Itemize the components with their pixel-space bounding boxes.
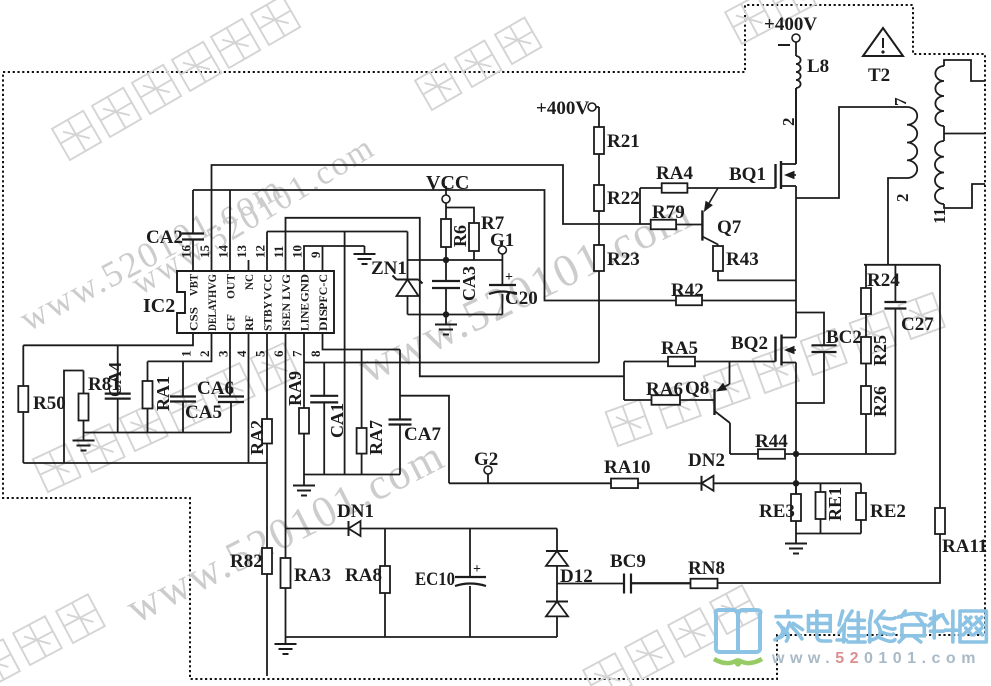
- resistor R22: [594, 185, 604, 211]
- resistor R79: [651, 220, 676, 230]
- svg-text:10: 10: [290, 245, 305, 258]
- wire DN1 bus: [286, 528, 349, 530]
- wire RA4-R79 link: [639, 188, 641, 225]
- svg-text:13: 13: [234, 245, 249, 259]
- resistor RA5: [624, 361, 668, 363]
- svg-text:Q7: Q7: [717, 217, 742, 238]
- wire R81 link: [64, 371, 84, 464]
- svg-text:R23: R23: [607, 249, 640, 270]
- svg-text:EC10: EC10: [415, 569, 455, 590]
- pin 2 bus: [148, 333, 212, 361]
- resistor R24: [865, 265, 867, 288]
- pin 9 stub: [322, 246, 324, 271]
- ground below RE3: [795, 534, 797, 544]
- wire bottom-left bus: [23, 462, 267, 464]
- wire RA2 down: [266, 463, 268, 548]
- capacitor C20 electrolytic: [501, 260, 503, 285]
- svg-text:9: 9: [308, 251, 323, 258]
- svg-text:+400V: +400V: [764, 14, 817, 35]
- svg-text:BC2: BC2: [826, 327, 862, 348]
- svg-text:RA5: RA5: [661, 338, 698, 359]
- svg-text:Q8: Q8: [685, 378, 709, 399]
- wire gate-drive vertical: [623, 362, 625, 401]
- resistor R25: [861, 337, 871, 364]
- pin 12 wire: [266, 232, 268, 272]
- resistor RA7: [361, 350, 363, 429]
- svg-text:CA4: CA4: [105, 362, 125, 397]
- svg-text:R44: R44: [755, 431, 788, 452]
- svg-text:RA3: RA3: [294, 565, 331, 586]
- svg-text:RA10: RA10: [604, 457, 650, 478]
- inductor L8: [796, 56, 801, 88]
- resistor RE2: [860, 483, 862, 493]
- resistor R81: [83, 371, 85, 394]
- svg-text:CA2: CA2: [146, 227, 183, 248]
- IC U-IC2 body: [177, 271, 334, 333]
- pin 14 wire: [229, 190, 231, 271]
- svg-text:ISEN: ISEN: [281, 302, 293, 331]
- resistor RA4: [640, 187, 662, 189]
- wire caps ground bus: [84, 432, 232, 434]
- svg-text:GND: GND: [300, 274, 312, 302]
- svg-text:RE2: RE2: [870, 501, 906, 522]
- svg-text:BQ1: BQ1: [729, 164, 766, 185]
- resistor R6: [441, 219, 451, 247]
- capacitor EC10 electrolytic: [469, 529, 471, 578]
- pin 10 wire to ground: [304, 246, 365, 271]
- svg-text:12: 12: [253, 245, 268, 258]
- svg-text:3: 3: [216, 350, 231, 357]
- resistor R23: [594, 245, 604, 271]
- wire BQ2 source down: [795, 363, 797, 495]
- pin 1 bus: [23, 333, 193, 345]
- svg-text:CF: CF: [226, 314, 238, 331]
- svg-text:R79: R79: [652, 202, 685, 223]
- svg-text:CA5: CA5: [185, 402, 222, 423]
- svg-text:DIS: DIS: [318, 309, 330, 331]
- svg-text:6: 6: [271, 350, 286, 357]
- svg-text:R82: R82: [230, 551, 263, 572]
- svg-text:PFC-C: PFC-C: [318, 274, 330, 310]
- svg-text:RA9: RA9: [285, 371, 305, 406]
- svg-text:G1: G1: [490, 230, 514, 251]
- capacitor C27: [894, 265, 896, 302]
- svg-text:R26: R26: [870, 386, 890, 417]
- ground near ZN1: [364, 246, 366, 254]
- wire R24 top bus: [864, 264, 940, 266]
- wire RE bottom bus: [796, 533, 861, 535]
- ground bottom bus: [285, 637, 287, 644]
- svg-text:CSS: CSS: [189, 307, 201, 331]
- svg-text:CA7: CA7: [404, 424, 441, 445]
- svg-text:C20: C20: [505, 288, 538, 309]
- wire sense ground bus: [304, 474, 400, 476]
- pin 4 wire: [248, 333, 250, 463]
- svg-text:15: 15: [197, 245, 212, 259]
- svg-text:14: 14: [216, 245, 231, 259]
- pin 6 wire: [285, 333, 287, 558]
- svg-text:ZN1: ZN1: [371, 258, 407, 279]
- resistor R42: [676, 296, 702, 306]
- svg-text:RA11: RA11: [942, 536, 987, 557]
- resistor RA3: [281, 558, 291, 588]
- diode D12 upper: [556, 529, 558, 552]
- svg-text:+400V: +400V: [536, 98, 589, 119]
- svg-text:R25: R25: [870, 335, 890, 366]
- svg-text:+: +: [505, 270, 513, 285]
- svg-text:LINE: LINE: [300, 303, 312, 331]
- logo book icon: [716, 610, 761, 652]
- wire to primary top: [796, 107, 901, 198]
- svg-text:RA6: RA6: [646, 379, 683, 400]
- pin 15 wire to R22/R23 junction: [212, 165, 651, 271]
- capacitor CA7: [399, 350, 401, 420]
- svg-text:R42: R42: [671, 280, 704, 301]
- resistor RE3: [795, 483, 797, 494]
- pin 3 wire with CA6: [229, 333, 231, 397]
- svg-text:RE3: RE3: [759, 501, 795, 522]
- resistor R43: [717, 245, 719, 247]
- svg-text:5: 5: [253, 350, 268, 357]
- pin 7 bus LINE: [304, 362, 599, 364]
- svg-text:BC9: BC9: [610, 551, 646, 572]
- svg-text:VCC: VCC: [263, 274, 275, 300]
- resistor RA1: [147, 361, 149, 381]
- svg-text:RF: RF: [244, 315, 256, 331]
- svg-text:RA2: RA2: [247, 420, 267, 455]
- logo site name text: [775, 611, 803, 641]
- node G1: [498, 246, 506, 254]
- svg-text:+: +: [473, 562, 481, 577]
- svg-text:BQ2: BQ2: [731, 333, 768, 354]
- R6 lower wire: [445, 247, 447, 260]
- svg-text:NC: NC: [244, 274, 256, 290]
- svg-text:VBT: VBT: [189, 274, 201, 296]
- capacitor CA3: [445, 260, 447, 281]
- svg-text:2: 2: [893, 194, 912, 203]
- resistor RA8: [384, 529, 386, 567]
- transistor Q7: [701, 210, 703, 240]
- wire VCC to R7: [446, 208, 474, 224]
- svg-text:DN1: DN1: [337, 501, 374, 522]
- resistor R26: [861, 386, 871, 414]
- svg-text:R43: R43: [726, 249, 759, 270]
- wire BQ1 source down: [795, 186, 797, 338]
- svg-text:L8: L8: [807, 56, 829, 77]
- wire bottom bus: [286, 636, 558, 638]
- svg-text:OUT: OUT: [226, 274, 238, 299]
- secondary winding 11: [944, 60, 985, 81]
- diode DN1: [348, 521, 350, 536]
- svg-text:T2: T2: [868, 65, 890, 86]
- capacitor CA1: [323, 363, 325, 396]
- svg-text:www.520101.com: www.520101.com: [771, 650, 981, 667]
- capacitor BC2: [796, 313, 824, 346]
- svg-text:CA6: CA6: [197, 378, 234, 399]
- pin 11 wire to gate-drive: [286, 218, 625, 376]
- pin 8 bus: [323, 333, 401, 350]
- ground below R81: [83, 433, 85, 441]
- capacitor BC9: [623, 574, 625, 594]
- svg-text:DN2: DN2: [688, 450, 725, 471]
- resistor R21: [598, 107, 600, 127]
- resistor RA11: [939, 265, 941, 508]
- svg-text:R22: R22: [607, 188, 640, 209]
- svg-text:LVG: LVG: [281, 274, 293, 300]
- svg-text:RA4: RA4: [656, 163, 693, 184]
- resistor R44: [730, 453, 758, 455]
- resistor R50: [22, 345, 24, 386]
- MOSFET BQ2: [774, 337, 776, 362]
- pin 16 wire with CA2: [192, 190, 194, 234]
- resistor RA6: [624, 399, 652, 401]
- resistor R82: [262, 548, 272, 574]
- T2 warning triangle: [863, 28, 903, 56]
- wire branch down from pin-12 bus: [344, 232, 346, 475]
- svg-text:VCC: VCC: [426, 172, 469, 194]
- svg-text:IC2: IC2: [143, 295, 175, 317]
- svg-text:RA8: RA8: [345, 565, 382, 586]
- wire D12 tap: [557, 583, 624, 585]
- MOSFET BQ1: [774, 164, 776, 188]
- primary winding 7-2: [901, 106, 907, 108]
- svg-text:RN8: RN8: [688, 558, 725, 579]
- svg-text:STBY: STBY: [263, 300, 275, 331]
- svg-text:11: 11: [271, 246, 286, 258]
- svg-text:RA1: RA1: [153, 376, 173, 411]
- diode D12 lower: [546, 601, 568, 603]
- resistor RA9: [299, 408, 309, 434]
- resistor RE1: [820, 483, 822, 492]
- svg-text:7: 7: [891, 97, 910, 106]
- zener ZN1: [407, 232, 409, 280]
- wire VCC bus: [193, 190, 676, 301]
- wire lower cap bus: [408, 314, 503, 316]
- pin 5 wire with RA2: [266, 333, 268, 419]
- svg-text:DELAY: DELAY: [207, 297, 219, 331]
- ground below RA9: [303, 475, 305, 486]
- svg-text:RE1: RE1: [825, 487, 845, 521]
- wire pin8 to G2 line: [400, 396, 449, 484]
- svg-text:8: 8: [308, 350, 323, 357]
- resistor RN8: [631, 583, 691, 585]
- svg-text:R21: R21: [607, 131, 640, 152]
- wire upper cap bus: [408, 259, 503, 261]
- capacitor CA5: [182, 361, 184, 396]
- pin 13 stub: [248, 260, 250, 271]
- diode DN2: [701, 476, 703, 491]
- svg-text:4: 4: [234, 350, 249, 357]
- resistor RA10: [611, 479, 638, 489]
- ground below CA3: [445, 315, 447, 325]
- svg-text:CA3: CA3: [459, 266, 479, 301]
- capacitor CA4: [117, 345, 119, 393]
- resistor R7: [469, 223, 479, 251]
- VCC terminal circle: [442, 195, 450, 203]
- svg-text:1: 1: [179, 351, 194, 358]
- svg-text:7: 7: [290, 350, 305, 357]
- svg-text:RA7: RA7: [366, 420, 386, 455]
- svg-text:R6: R6: [450, 225, 470, 247]
- svg-text:R50: R50: [33, 393, 66, 414]
- svg-text:2: 2: [197, 351, 212, 358]
- capacitor CA2: [182, 232, 204, 234]
- svg-text:HVG: HVG: [207, 274, 219, 298]
- wire RE top bus: [796, 482, 861, 484]
- svg-text:CA1: CA1: [327, 403, 347, 438]
- wire G2 line: [449, 482, 611, 484]
- svg-text:11: 11: [930, 208, 949, 224]
- svg-text:C27: C27: [901, 314, 934, 335]
- transistor Q8: [729, 362, 731, 385]
